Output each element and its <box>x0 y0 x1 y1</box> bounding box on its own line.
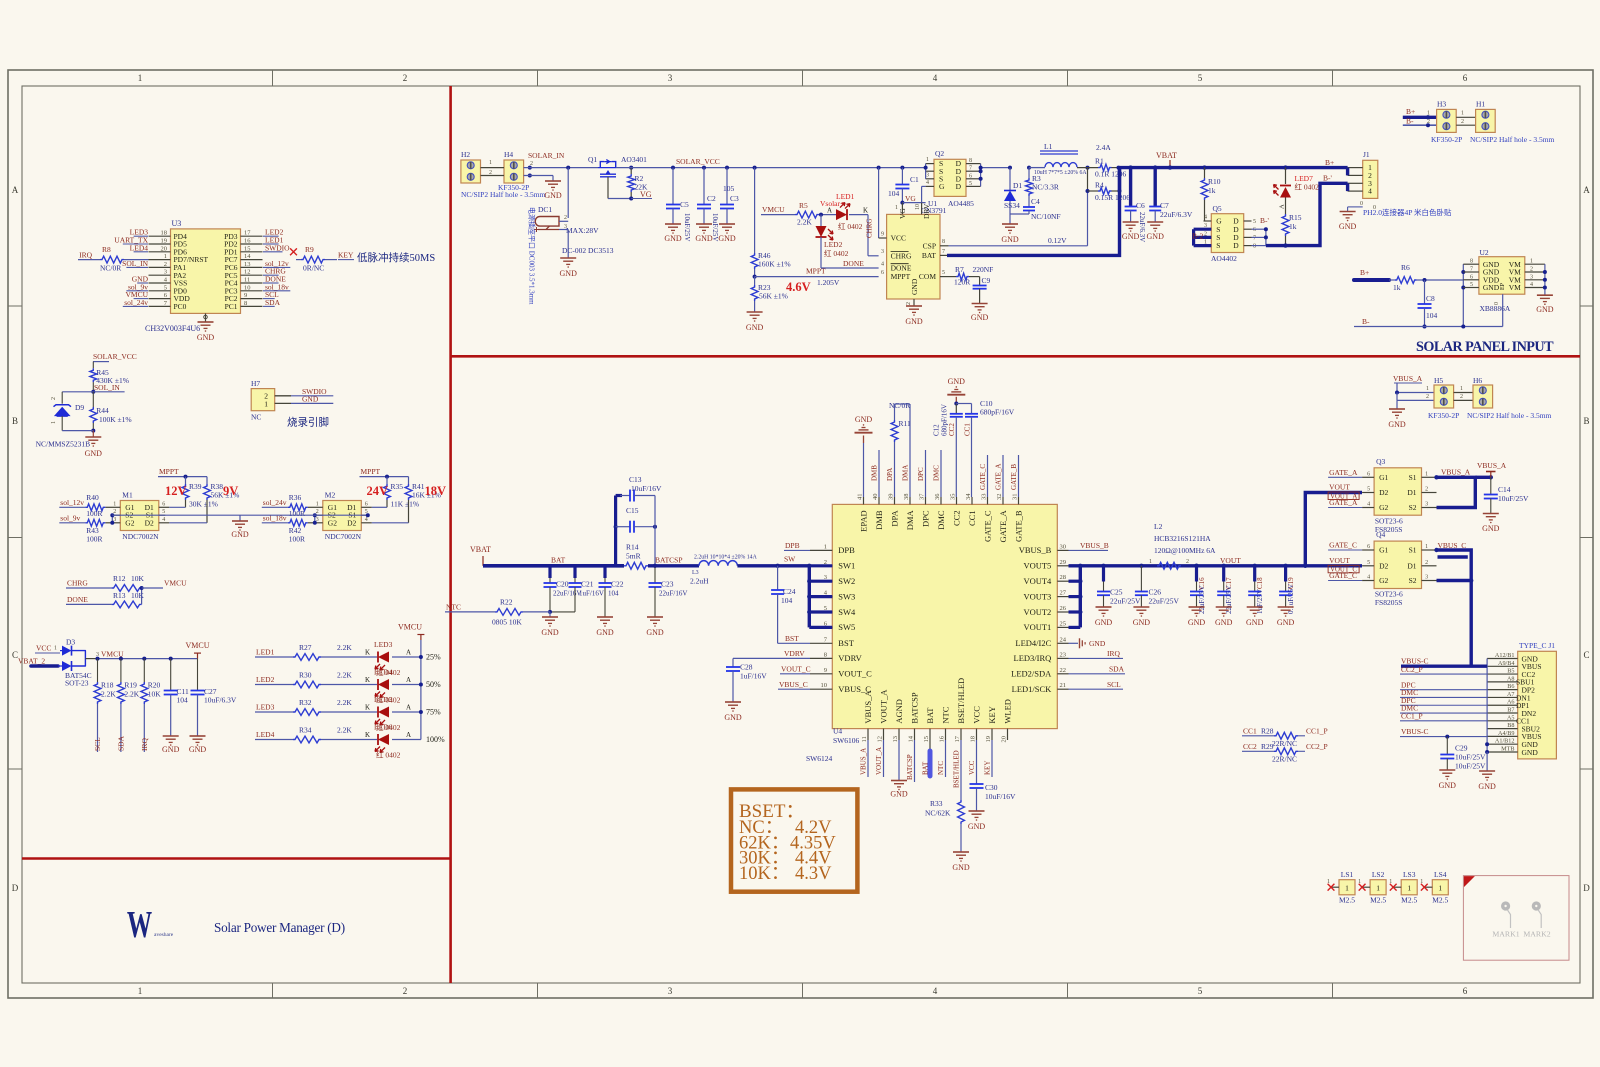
svg-text:VDRV: VDRV <box>784 649 805 658</box>
svg-text:D: D <box>12 883 19 893</box>
svg-text:8: 8 <box>244 300 247 307</box>
svg-text:B6: B6 <box>1507 683 1514 690</box>
ground flag above EPAD <box>863 443 865 497</box>
sideways ground at LED4/I2C pin <box>1069 642 1079 644</box>
svg-text:B-': B-' <box>1260 216 1270 225</box>
wire DC1 to ground <box>559 229 568 231</box>
svg-text:5: 5 <box>1198 73 1203 83</box>
svg-text:16: 16 <box>939 735 946 742</box>
svg-text:VMCU: VMCU <box>762 205 785 214</box>
svg-text:C28: C28 <box>740 663 753 672</box>
svg-text:GND: GND <box>1095 618 1113 627</box>
svg-text:CC2: CC2 <box>951 510 961 526</box>
svg-text:VBUS_B: VBUS_B <box>1019 545 1052 555</box>
U4 pin 30 (VBUS_B) stub <box>1057 549 1068 551</box>
svg-text:4: 4 <box>933 73 938 83</box>
svg-text:10K: 10K <box>148 690 162 699</box>
svg-text:D: D <box>1233 241 1239 250</box>
svg-text:TYPE_C J1: TYPE_C J1 <box>1519 641 1555 650</box>
svg-text:DMA: DMA <box>905 510 915 531</box>
U4 pin 23 (LED3/IRQ) stub <box>1057 657 1068 659</box>
ground below C29 <box>1439 769 1455 771</box>
svg-text:GND: GND <box>724 713 742 722</box>
svg-text:GND: GND <box>855 415 873 424</box>
U4 pin 27 (VOUT3) stub <box>1057 596 1068 598</box>
svg-text:SW6124: SW6124 <box>806 754 833 763</box>
svg-text:GATE_C: GATE_C <box>982 510 992 542</box>
svg-text:A9/B4: A9/B4 <box>1498 660 1515 667</box>
U4 pin 19 (KEY) stub <box>991 729 993 740</box>
svg-text:104: 104 <box>1426 311 1438 320</box>
svg-text:1: 1 <box>1461 111 1464 117</box>
svg-text:A1/B12: A1/B12 <box>1495 738 1515 745</box>
svg-text:9: 9 <box>244 292 247 299</box>
resistor R46 160K <box>754 168 756 253</box>
svg-text:C6: C6 <box>1136 201 1145 210</box>
junction C20/C21 ground <box>548 610 552 614</box>
svg-text:22uF/16V: 22uF/16V <box>659 590 687 598</box>
svg-text:2: 2 <box>564 215 567 221</box>
svg-text:G: G <box>939 182 945 191</box>
svg-text:CC2: CC2 <box>948 423 956 436</box>
svg-text:1k: 1k <box>1289 222 1297 231</box>
svg-text:GND: GND <box>541 628 559 637</box>
svg-text:GATE_C: GATE_C <box>1329 541 1357 550</box>
svg-text:VG: VG <box>640 190 652 199</box>
svg-text:GND: GND <box>1133 618 1151 627</box>
dc jack DC1 <box>535 217 559 227</box>
capacitor C12 680pF/16V <box>955 404 957 414</box>
svg-text:SDA: SDA <box>265 298 281 307</box>
svg-text:6: 6 <box>1253 227 1256 233</box>
svg-text:GND: GND <box>1122 232 1140 241</box>
U4 pin 11 (VBUS_A) stub <box>867 729 869 740</box>
svg-text:VCC: VCC <box>968 760 976 775</box>
svg-text:39: 39 <box>888 494 895 501</box>
svg-text:sol_24v: sol_24v <box>263 498 287 507</box>
svg-text:7: 7 <box>969 166 972 172</box>
svg-text:LED1: LED1 <box>256 648 275 657</box>
U3 pin 4 (VSS) <box>149 282 171 284</box>
U4 pin 14 (BATCSP) stub <box>914 729 916 740</box>
svg-text:KF350-2P: KF350-2P <box>1431 135 1462 144</box>
svg-text:40: 40 <box>872 494 879 501</box>
svg-text:G2: G2 <box>125 518 134 527</box>
resistor R18 2.2K <box>96 657 100 661</box>
svg-text:R11: R11 <box>899 419 911 428</box>
svg-text:GND: GND <box>952 863 970 872</box>
wires H3 to H1 <box>1456 116 1475 118</box>
svg-text:KEY: KEY <box>984 761 992 775</box>
svg-text:NTC: NTC <box>940 706 950 723</box>
no-connect X on SWDIO pin <box>290 248 297 255</box>
svg-text:D9: D9 <box>75 403 84 412</box>
resistor R23 56K <box>754 277 756 285</box>
Q5 drain tie bus <box>1252 228 1266 230</box>
svg-text:2.2K: 2.2K <box>797 218 812 227</box>
svg-text:21: 21 <box>1060 682 1067 689</box>
svg-text:B-: B- <box>1362 317 1370 326</box>
svg-text:COM: COM <box>919 272 936 281</box>
svg-text:CHRG: CHRG <box>866 219 874 238</box>
svg-text:SWDIO: SWDIO <box>265 243 290 252</box>
svg-text:LED2: LED2 <box>824 240 843 249</box>
svg-text:C12: C12 <box>933 424 941 436</box>
inductor L1 10uH <box>1040 150 1078 152</box>
svg-text:1k: 1k <box>1393 283 1401 292</box>
U4 pin 36 (DMC) stub <box>940 497 942 504</box>
svg-text:R33: R33 <box>930 799 943 808</box>
svg-text:C14: C14 <box>1498 485 1511 494</box>
U3 pin 20 (PD6) <box>149 251 171 253</box>
capacitor C21 1uF/16V <box>573 566 576 578</box>
svg-text:29: 29 <box>1060 559 1067 566</box>
svg-text:9: 9 <box>881 232 884 238</box>
charger IC U1 CN3791 body <box>887 214 940 299</box>
resistor R41 <box>408 477 410 484</box>
svg-text:2: 2 <box>1461 119 1464 125</box>
U4 pin 8 (VDRV) stub <box>810 657 832 659</box>
svg-text:G2: G2 <box>1379 503 1388 512</box>
connector H5 KF350-2P <box>1434 385 1454 408</box>
wire IRQ to R8 <box>78 259 100 261</box>
svg-text:C29: C29 <box>1455 744 1468 753</box>
svg-text:PH2.0连接器4P 米白色卧贴: PH2.0连接器4P 米白色卧贴 <box>1363 207 1452 217</box>
led LED3 red 0402 <box>378 652 389 663</box>
svg-text:2: 2 <box>1426 394 1429 400</box>
U3 pin 13 (PC6) <box>241 266 263 268</box>
svg-text:LS3: LS3 <box>1403 870 1416 879</box>
svg-text:5mR: 5mR <box>626 552 641 561</box>
svg-text:35: 35 <box>950 494 957 501</box>
svg-text:AO4485: AO4485 <box>948 199 974 208</box>
kelvin cap C15 <box>614 525 618 529</box>
svg-text:2.2K: 2.2K <box>124 690 139 699</box>
svg-text:NC/62K: NC/62K <box>925 809 951 818</box>
svg-text:DMB: DMB <box>874 510 884 530</box>
wire R8 to U3 pin 1 <box>124 259 149 261</box>
svg-text:DC-002 DC3513: DC-002 DC3513 <box>562 246 614 255</box>
svg-text:1: 1 <box>316 501 319 507</box>
capacitor C16 22uF/25V <box>1194 564 1198 568</box>
junction after L2 <box>1194 564 1198 568</box>
Q2 source tie to rail <box>926 163 934 165</box>
svg-text:1: 1 <box>1530 259 1533 265</box>
mcu U3 CH32V003F4U6 body <box>171 229 241 314</box>
svg-text:M2.5: M2.5 <box>1339 896 1355 905</box>
svg-text:K: K <box>365 676 370 684</box>
svg-text:M1: M1 <box>122 491 133 500</box>
svg-text:GND: GND <box>231 530 249 539</box>
svg-text:D3: D3 <box>66 638 75 647</box>
svg-text:H2: H2 <box>461 150 470 159</box>
svg-text:DONE: DONE <box>843 259 864 268</box>
svg-text:GND: GND <box>1089 639 1106 648</box>
U4 pin 10 (VBUS_C) stub <box>810 688 832 690</box>
junction SW node <box>775 564 779 568</box>
svg-text:11: 11 <box>244 277 250 284</box>
svg-text:0.1R 1206: 0.1R 1206 <box>1095 169 1127 178</box>
svg-text:5: 5 <box>1253 219 1256 225</box>
svg-text:GATE_A: GATE_A <box>1329 468 1358 477</box>
svg-text:H3: H3 <box>1437 100 1446 109</box>
battery connector J1 <box>1363 160 1378 198</box>
svg-text:VBUS_A: VBUS_A <box>1477 461 1507 470</box>
svg-text:31: 31 <box>1012 494 1019 501</box>
ground below C20 <box>542 616 558 618</box>
svg-text:D1: D1 <box>1407 488 1416 497</box>
svg-text:22R/NC: 22R/NC <box>1272 755 1297 764</box>
border row tick <box>8 305 22 307</box>
svg-text:C2: C2 <box>707 194 716 203</box>
U4 pin 2 (SW1) stub <box>810 565 832 567</box>
border column tick <box>1067 70 1069 86</box>
svg-text:10uH 7*7*5 ±20% 6A: 10uH 7*7*5 ±20% 6A <box>1034 170 1087 176</box>
svg-text:D2: D2 <box>145 518 154 527</box>
U4 pin 7 (BST) stub <box>810 642 832 644</box>
schottky D1 SS34 <box>1008 166 1012 170</box>
svg-text:4: 4 <box>162 517 165 523</box>
resistor R1 0.1R 1206 <box>1086 166 1090 170</box>
svg-text:104: 104 <box>888 189 900 198</box>
svg-text:22R/NC: 22R/NC <box>1272 739 1297 748</box>
svg-text:GATE_C: GATE_C <box>979 464 987 490</box>
sense resistor R14 5mR <box>624 562 648 569</box>
U4 pin 3 (SW2) stub <box>810 580 832 582</box>
svg-text:1: 1 <box>138 73 143 83</box>
svg-text:VBUS-C: VBUS-C <box>1401 727 1429 736</box>
svg-text:VOUT: VOUT <box>1329 483 1350 492</box>
svg-text:D1: D1 <box>1013 181 1022 190</box>
svg-text:R20: R20 <box>148 681 161 690</box>
svg-text:2.2K: 2.2K <box>337 643 352 652</box>
svg-text:MAX:28V: MAX:28V <box>566 226 599 235</box>
svg-text:GND: GND <box>189 745 207 754</box>
svg-text:sol_12v: sol_12v <box>60 498 84 507</box>
svg-text:R22: R22 <box>500 598 513 607</box>
svg-text:100R: 100R <box>289 534 305 543</box>
svg-text:SOLAR_VCC: SOLAR_VCC <box>676 157 720 166</box>
svg-text:KF350-2P: KF350-2P <box>498 183 529 192</box>
svg-text:5: 5 <box>164 284 167 291</box>
svg-text:MTB: MTB <box>1501 745 1514 752</box>
svg-text:2: 2 <box>1186 559 1189 565</box>
capacitor C4 NC/10NF <box>1023 206 1035 208</box>
capacitor C18 1uF/25V <box>1253 564 1257 568</box>
svg-text:B+: B+ <box>1406 107 1415 116</box>
svg-text:13: 13 <box>244 261 251 268</box>
svg-text:1.205V: 1.205V <box>817 278 840 287</box>
svg-text:GND: GND <box>968 822 986 831</box>
svg-text:NTC: NTC <box>937 761 945 775</box>
svg-text:19: 19 <box>161 238 168 245</box>
wire to zener D9 <box>62 391 93 393</box>
svg-text:105: 105 <box>723 184 735 193</box>
svg-text:1: 1 <box>895 205 898 211</box>
svg-text:IRQ: IRQ <box>140 738 149 752</box>
svg-text:NC/0R: NC/0R <box>889 401 910 410</box>
svg-text:4: 4 <box>1367 502 1370 508</box>
led LED6 red 0402 <box>378 734 389 745</box>
svg-text:CHRG: CHRG <box>891 251 912 260</box>
svg-text:2.2K: 2.2K <box>337 698 352 707</box>
svg-text:1: 1 <box>489 160 492 166</box>
svg-text:A6: A6 <box>1507 699 1515 706</box>
resistor R39 <box>184 475 188 479</box>
ground below R33 <box>953 851 969 853</box>
svg-text:烧录引脚: 烧录引脚 <box>287 416 329 429</box>
U3 pin 5 (PD0) <box>149 290 171 292</box>
riser from VOUT rail to Q3 <box>1305 493 1362 566</box>
svg-text:BATCSP: BATCSP <box>906 754 914 780</box>
svg-text:C13: C13 <box>629 475 642 484</box>
svg-text:VBUS_A: VBUS_A <box>1393 374 1423 383</box>
border column tick <box>1332 70 1334 86</box>
U2 VM tie to ground <box>1544 264 1546 295</box>
ground below U3 <box>198 321 214 323</box>
svg-text:LED3: LED3 <box>256 703 275 712</box>
thick B+ into J1 <box>1346 168 1349 176</box>
svg-text:1: 1 <box>54 646 57 652</box>
U3 pin 3 (PA2) <box>149 274 171 276</box>
svg-text:G1: G1 <box>1379 473 1388 482</box>
led LED1 red 0402 <box>836 209 847 220</box>
svg-text:红 0402: 红 0402 <box>1295 182 1320 192</box>
svg-text:LED4/I2C: LED4/I2C <box>1015 638 1051 648</box>
svg-text:R10: R10 <box>1208 177 1221 186</box>
wires H2 to H4 <box>481 167 505 169</box>
power flag VMCU for LED ladder <box>420 635 422 641</box>
svg-text:4.3V: 4.3V <box>795 864 832 884</box>
capacitor C8 104 <box>1424 280 1426 304</box>
svg-text:AO4402: AO4402 <box>1211 254 1237 263</box>
svg-text:K: K <box>365 704 370 712</box>
svg-text:C1: C1 <box>910 175 919 184</box>
fiducial mark box <box>1463 876 1569 961</box>
svg-text:6: 6 <box>1367 544 1370 550</box>
svg-text:2.2uH 10*10*4 ±20% 14A: 2.2uH 10*10*4 ±20% 14A <box>694 555 758 561</box>
protector U2 XB8886A body <box>1479 257 1525 295</box>
ground below C3 <box>719 223 735 225</box>
SW thick tie bus for SW1-SW5 <box>808 566 811 628</box>
svg-text:30K ±1%: 30K ±1% <box>189 500 218 509</box>
svg-text:1: 1 <box>1149 559 1152 565</box>
svg-text:3: 3 <box>1204 223 1207 229</box>
svg-text:GND: GND <box>1339 222 1357 231</box>
resistor R33 NC/62K <box>958 800 965 824</box>
resistor R13 10K <box>112 601 142 608</box>
svg-text:6: 6 <box>1470 274 1473 280</box>
svg-text:12V: 12V <box>165 484 187 498</box>
svg-text:1: 1 <box>1425 544 1428 550</box>
svg-text:1: 1 <box>1427 111 1430 117</box>
svg-text:MPPT: MPPT <box>361 467 381 476</box>
ground below C14 <box>1483 513 1499 515</box>
ground below C25 <box>1096 606 1112 608</box>
U3 pin 18 (PD4) <box>149 235 171 237</box>
capacitor C26 22uF/25V <box>1139 564 1143 568</box>
U3 ground pin wire <box>205 313 207 322</box>
svg-text:B-2: B-2 <box>1192 232 1204 241</box>
resistor R15 1k <box>1282 214 1289 236</box>
svg-text:KF350-2P: KF350-2P <box>1428 411 1459 420</box>
svg-text:R13: R13 <box>113 591 126 600</box>
U2 EP pad to B- <box>1502 294 1504 326</box>
capacitor C28 1uF/16V <box>732 658 734 667</box>
svg-text:R12: R12 <box>113 574 126 583</box>
U4 pin 15 (BAT) stub <box>929 729 931 751</box>
svg-text:0805 10K: 0805 10K <box>492 618 522 627</box>
svg-text:2: 2 <box>530 161 533 167</box>
svg-text:50%: 50% <box>426 680 441 689</box>
svg-text:100K ±1%: 100K ±1% <box>99 415 132 424</box>
ground at AGND pin <box>898 740 900 781</box>
ground below C27 <box>190 735 206 737</box>
svg-text:GND: GND <box>890 790 908 799</box>
ground below C30 <box>969 810 985 812</box>
power manager U4 SW6106 body <box>832 504 1057 728</box>
wire Q1 gate to VG <box>607 177 609 199</box>
svg-text:S1: S1 <box>1409 473 1417 482</box>
svg-text:9: 9 <box>824 667 827 674</box>
svg-text:C24: C24 <box>783 587 796 596</box>
svg-text:SCL: SCL <box>93 737 102 751</box>
svg-text:GATE_B: GATE_B <box>1010 464 1018 490</box>
svg-text:VOUT_A: VOUT_A <box>875 747 883 775</box>
ground at H5 <box>1396 400 1398 409</box>
svg-text:C23: C23 <box>661 580 674 589</box>
svg-text:4: 4 <box>1530 282 1533 288</box>
U1 pin 9 VCC wire <box>878 168 880 238</box>
fiducial MARK1 <box>1501 901 1510 910</box>
svg-text:C30: C30 <box>985 783 998 792</box>
resistor R34 2.2K <box>293 736 321 743</box>
thick drain bus to B-prime riser <box>1266 183 1348 245</box>
svg-text:17: 17 <box>954 735 961 742</box>
svg-text:NC/SIP2 Half hole - 3.5mm: NC/SIP2 Half hole - 3.5mm <box>1467 411 1552 420</box>
svg-text:NDC7002N: NDC7002N <box>325 532 362 541</box>
svg-text:VMCU: VMCU <box>398 623 422 632</box>
svg-text:LS2: LS2 <box>1372 870 1385 879</box>
U3 pin 16 (PD2) <box>241 243 263 245</box>
svg-text:DC1: DC1 <box>538 205 552 214</box>
U4 pin 13 (AGND) stub <box>898 729 900 740</box>
power flag VMCU <box>197 653 199 659</box>
vout tie bus VOUT1-VOUT4 <box>1079 566 1082 628</box>
svg-text:2.4A: 2.4A <box>1096 143 1111 152</box>
svg-text:VOUT_C: VOUT_C <box>838 669 872 679</box>
capacitor C29 10uF/25V <box>1445 735 1449 739</box>
svg-text:C18: C18 <box>1256 577 1264 589</box>
U4 pin 38 (DMA) stub <box>909 497 911 504</box>
svg-text:23: 23 <box>1060 651 1067 658</box>
svg-text:GND: GND <box>162 745 180 754</box>
svg-text:R6: R6 <box>1401 263 1410 272</box>
svg-text:0: 0 <box>1494 302 1500 305</box>
svg-text:6: 6 <box>1367 471 1370 477</box>
resistor R20 10K <box>142 657 146 661</box>
svg-text:100R: 100R <box>289 509 305 518</box>
svg-text:HCB3216S121HA: HCB3216S121HA <box>1154 534 1211 543</box>
svg-text:56K ±1%: 56K ±1% <box>759 292 788 301</box>
svg-text:5: 5 <box>969 181 972 187</box>
svg-text:10uF/6.3V: 10uF/6.3V <box>204 696 237 705</box>
svg-text:C4: C4 <box>1031 197 1040 206</box>
svg-text:SW5: SW5 <box>838 622 855 632</box>
mounting hole LS4 M2.5 <box>1432 880 1448 895</box>
svg-text:GND: GND <box>302 395 319 404</box>
svg-text:DPA: DPA <box>886 468 894 481</box>
